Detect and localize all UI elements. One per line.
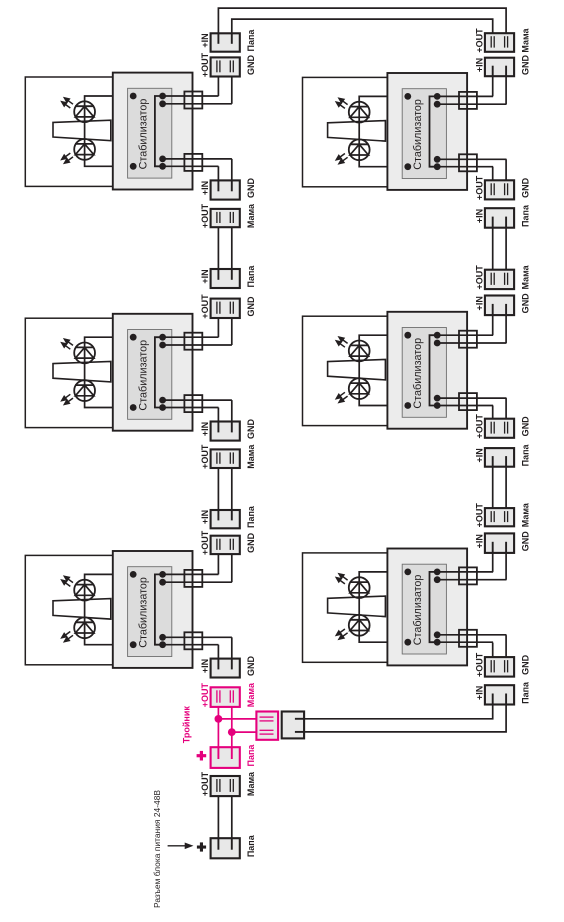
svg-text:Мама: Мама — [246, 203, 256, 228]
svg-text:+IN: +IN — [200, 659, 210, 673]
svg-text:+OUT: +OUT — [200, 203, 210, 228]
connector M1 +OUT female (GND) — [211, 536, 240, 554]
connector power male Папа — [211, 838, 240, 858]
connector cable female +OUT/Мама — [485, 508, 514, 526]
module unit M3 (top-left LED lamp + stabilizer) — [53, 73, 232, 190]
module unit M2 (middle-left) — [53, 314, 232, 431]
connector M3 +IN male (GND) — [211, 180, 240, 199]
wires: M4 +OUT pigtail — [505, 159, 507, 185]
lamp housing M4 — [303, 77, 388, 186]
connector cable male +IN/Папа — [211, 510, 240, 528]
svg-text:Мама: Мама — [521, 502, 531, 527]
svg-text:+OUT: +OUT — [200, 294, 210, 319]
lamp housing M5 — [303, 316, 388, 425]
wire: cable M4-M5 — [492, 219, 494, 274]
svg-text:GND: GND — [521, 55, 531, 76]
svg-text:Папа: Папа — [246, 265, 256, 288]
lamp housing M3 — [25, 77, 113, 186]
svg-text:GND: GND — [521, 293, 531, 314]
svg-text:Мама: Мама — [246, 444, 256, 469]
connector M6 +OUT female (GND) — [485, 657, 514, 677]
svg-text:+OUT: +OUT — [475, 503, 485, 528]
svg-text:+IN: +IN — [475, 209, 485, 223]
connector chain female +OUT/Мама (top right) — [485, 33, 514, 52]
svg-text:+IN: +IN — [475, 58, 485, 72]
junction dot + (magenta) — [215, 715, 223, 723]
connector M5 +OUT female (GND) — [485, 419, 514, 438]
svg-text:Мама: Мама — [246, 682, 256, 707]
connector M4 +IN male (GND) — [485, 58, 514, 76]
svg-text:Папа: Папа — [521, 204, 531, 227]
wires: M4 +IN pigtail — [492, 76, 494, 96]
wires: M3 +IN pigtail — [231, 159, 233, 181]
svg-text:GND: GND — [521, 654, 531, 675]
svg-text:Мама: Мама — [521, 27, 531, 52]
svg-text:GND: GND — [246, 178, 256, 199]
svg-text:GND: GND — [246, 532, 256, 553]
svg-text:GND: GND — [521, 416, 531, 437]
wire: tee female to gnd junction (magenta) — [231, 702, 233, 760]
lamp housing M1 — [25, 555, 113, 664]
wires: M6 +OUT pigtail — [505, 635, 507, 661]
connector tee +OUT female Мама (magenta) — [211, 687, 240, 707]
wires: M1 +OUT pigtail — [217, 550, 219, 575]
svg-text:Тройник: Тройник — [182, 706, 192, 744]
connector cable male +IN/Папа — [485, 208, 514, 228]
label + (power) — [197, 842, 206, 851]
connector M5 +IN male (GND) — [485, 296, 514, 316]
svg-text:Папа: Папа — [521, 681, 531, 704]
svg-text:+IN: +IN — [200, 269, 210, 283]
connector M4 +OUT female (GND) — [485, 180, 514, 199]
svg-text:+OUT: +OUT — [200, 530, 210, 555]
svg-text:Мама: Мама — [521, 264, 531, 289]
svg-text:GND: GND — [521, 531, 531, 552]
svg-text:Папа: Папа — [246, 505, 256, 528]
svg-text:+IN: +IN — [200, 510, 210, 524]
wires: M2 +IN pigtail — [231, 400, 233, 422]
svg-text:Папа: Папа — [521, 443, 531, 466]
svg-text:+IN: +IN — [475, 296, 485, 310]
svg-text:+OUT: +OUT — [475, 414, 485, 439]
svg-text:+OUT: +OUT — [475, 265, 485, 290]
connector cable male +IN/Папа — [211, 269, 240, 288]
svg-text:+OUT: +OUT — [200, 444, 210, 469]
wire: feed to bottom row (gnd line) — [304, 705, 506, 732]
svg-text:GND: GND — [246, 55, 256, 76]
connector cable female +OUT/Мама — [485, 270, 514, 289]
wire: tee female to + junction (magenta) — [217, 702, 219, 760]
connector M6 +IN male Папа (chain start, bottom right) — [485, 685, 514, 704]
wire: power cable — [217, 791, 219, 850]
svg-text:+OUT: +OUT — [200, 52, 210, 77]
wire: tee branch + (magenta) — [218, 718, 256, 720]
lamp housing M2 — [25, 318, 113, 427]
junction dot gnd (magenta) — [228, 728, 236, 736]
svg-text:Разъем блока питания 24-48В: Разъем блока питания 24-48В — [152, 790, 162, 908]
wire: chain link top-left to top-right (+ line) — [218, 8, 506, 37]
connector M2 +OUT female (GND) — [211, 299, 240, 318]
svg-text:+IN: +IN — [200, 181, 210, 195]
connector cable male +IN/Папа — [485, 448, 514, 467]
svg-text:+OUT: +OUT — [200, 771, 210, 796]
wires: M1 +IN pigtail — [231, 637, 233, 659]
connector M3 +OUT female (Мама/GND) — [211, 57, 240, 76]
svg-text:+OUT: +OUT — [475, 28, 485, 53]
svg-text:Папа: Папа — [246, 834, 256, 857]
svg-text:Мама: Мама — [246, 771, 256, 796]
wire: cable M5-M6 — [492, 458, 494, 513]
wire: tee branch gnd (magenta) — [232, 731, 257, 733]
svg-text:Папа: Папа — [246, 744, 256, 767]
connector M2 +IN male (GND) — [211, 422, 240, 441]
svg-text:+IN: +IN — [475, 686, 485, 700]
connector cable female +OUT/Мама — [211, 209, 240, 227]
wires: M3 +OUT pigtail — [217, 71, 219, 96]
connector cable female +OUT/Мама — [211, 449, 240, 468]
wire: feed to bottom row (+ line) — [304, 705, 493, 719]
svg-text:+OUT: +OUT — [200, 682, 210, 707]
connector M1 +IN male (GND) — [211, 659, 240, 678]
module unit M4 (top-right) — [328, 73, 507, 190]
svg-text:+IN: +IN — [475, 448, 485, 462]
wires: M2 +OUT pigtail — [217, 313, 219, 338]
svg-text:GND: GND — [246, 419, 256, 440]
wires: M5 +OUT pigtail — [505, 398, 507, 423]
wire: chain link top-left to top-right (gnd line) — [232, 19, 493, 37]
connector X1 male (+IN/Папа cable end) — [211, 33, 240, 51]
svg-text:+OUT: +OUT — [475, 175, 485, 200]
label + (magenta) — [197, 751, 207, 761]
svg-text:GND: GND — [246, 296, 256, 317]
svg-text:+IN: +IN — [475, 534, 485, 548]
lamp housing M6 — [303, 553, 388, 662]
svg-text:Папа: Папа — [246, 29, 256, 52]
connector tee male Папа (magenta) — [211, 747, 240, 768]
wire: cable M3-M2 — [217, 223, 219, 278]
connector tee side female Мама (magenta) — [256, 712, 278, 740]
connector side male to bottom row (black) — [282, 712, 304, 739]
module unit M5 (middle-right) — [328, 312, 507, 429]
connector power female +OUT/Мама — [211, 776, 240, 796]
arrow to power + — [168, 844, 192, 849]
module unit M6 (bottom-right) — [328, 549, 507, 666]
svg-text:GND: GND — [521, 177, 531, 198]
svg-text:+IN: +IN — [200, 422, 210, 436]
wire: cable M2-M1 — [217, 463, 219, 519]
module unit M1 (bottom-left) — [53, 551, 232, 668]
svg-text:+IN: +IN — [200, 33, 210, 47]
connector M6 +IN male (GND) — [485, 533, 514, 553]
svg-text:+OUT: +OUT — [475, 652, 485, 677]
wires: M6 +IN pigtail — [492, 553, 494, 572]
svg-text:GND: GND — [246, 656, 256, 677]
wires: M5 +IN pigtail — [492, 315, 494, 335]
